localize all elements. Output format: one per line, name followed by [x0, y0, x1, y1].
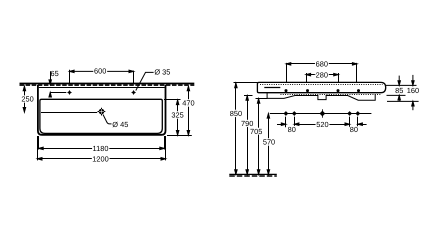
svg-text:850: 850	[230, 109, 242, 118]
svg-text:250: 250	[21, 95, 33, 104]
svg-text:1200: 1200	[92, 155, 108, 164]
svg-text:1180: 1180	[93, 144, 109, 153]
svg-text:85: 85	[395, 86, 403, 95]
svg-text:80: 80	[288, 125, 296, 134]
svg-text:470: 470	[182, 98, 194, 107]
svg-text:680: 680	[316, 60, 328, 69]
svg-text:520: 520	[316, 120, 328, 129]
svg-text:280: 280	[316, 70, 328, 79]
svg-text:325: 325	[171, 111, 183, 120]
svg-text:Ø 35: Ø 35	[154, 67, 170, 76]
svg-text:600: 600	[94, 67, 106, 76]
svg-text:160: 160	[407, 86, 419, 95]
svg-text:705: 705	[250, 127, 262, 136]
svg-text:Ø 45: Ø 45	[112, 120, 128, 129]
svg-text:80: 80	[350, 125, 358, 134]
svg-text:570: 570	[263, 138, 275, 147]
svg-text:65: 65	[50, 69, 58, 78]
